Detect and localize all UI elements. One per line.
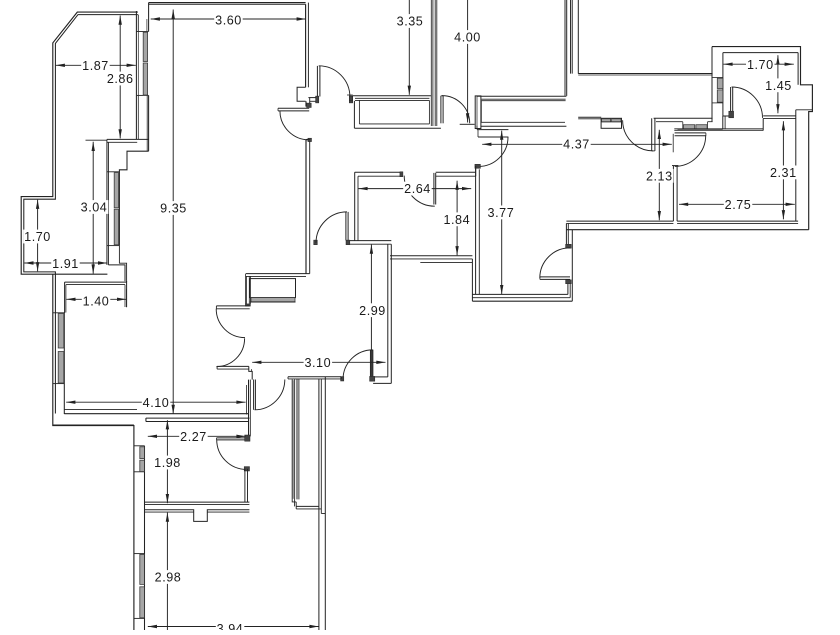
door A2 jamb top (307, 103, 312, 107)
door F leaf (dark) (370, 350, 373, 380)
door C leaf (345, 212, 347, 241)
dim 3.10 (252, 361, 385, 363)
window W-L1 upper (114, 173, 118, 208)
cap (287, 377, 289, 379)
door A2 leaf (278, 107, 309, 109)
door A jambs (316, 96, 319, 103)
svg-text:4.10: 4.10 (143, 396, 170, 410)
svg-text:3.60: 3.60 (215, 13, 242, 27)
top-right room inner right (797, 53, 799, 85)
kitchen wall pair with window (106, 139, 108, 265)
right-section top wall (390, 255, 472, 257)
3.77 corridor bottom wall (472, 293, 568, 295)
door B jamb block (349, 96, 352, 101)
outer right face (324, 377, 326, 630)
dim 3.94 (148, 626, 319, 628)
bay window 2 (477, 95, 567, 97)
door C arc (316, 212, 347, 243)
window W-L3 upper (140, 447, 145, 459)
lower-left exterior wall inner line (144, 446, 146, 630)
window W-TR lower (717, 90, 723, 102)
bay2 left jamb block (475, 96, 481, 129)
3.77 corridor west wall (475, 166, 477, 295)
shaft hatch fill (293, 380, 295, 499)
jog up to top-right room (722, 116, 724, 129)
svg-text:9.35: 9.35 (160, 202, 187, 216)
dim 1.70 right (723, 63, 793, 65)
2.64-room west wall (354, 172, 356, 240)
svg-text:4.00: 4.00 (454, 31, 481, 45)
cap (340, 377, 342, 379)
hall west wall pair (305, 139, 307, 273)
window W2 right (696, 125, 707, 129)
wall below window, west wall of R1 (135, 95, 137, 139)
svg-text:2.75: 2.75 (725, 198, 752, 212)
svg-text:2.86: 2.86 (107, 72, 134, 86)
outer (566, 229, 808, 231)
corner (145, 418, 147, 421)
top-right room left wall (711, 47, 713, 122)
dim 1.70 left (37, 200, 39, 272)
exterior wall outer boundary, left wing (21, 12, 138, 274)
cap (215, 306, 217, 309)
door D threshold (460, 123, 475, 125)
corridor bottom wall left part (578, 116, 601, 118)
svg-text:1.87: 1.87 (82, 59, 109, 73)
step to niche (108, 265, 125, 281)
door A leaf (316, 66, 318, 97)
arm west wall pair (296, 379, 298, 500)
svg-text:3.77: 3.77 (488, 206, 515, 220)
top-right room inner top (723, 52, 798, 54)
door F jamb (370, 376, 375, 381)
top-right room outer (712, 47, 812, 230)
notch wall (145, 510, 250, 522)
door G arc (217, 440, 247, 470)
hall east wall (387, 244, 389, 377)
wall under R1 horizontal pair (107, 138, 149, 140)
svg-text:3.10: 3.10 (304, 356, 331, 370)
dim 4.37 ext (672, 134, 674, 153)
door L arc (623, 120, 654, 151)
lower rooms: west wall corner at x146 (145, 418, 147, 421)
outer east face (571, 230, 573, 302)
door E3 leaf (730, 87, 732, 118)
window W-L4 lower (140, 587, 145, 618)
svg-text:2.27: 2.27 (180, 430, 207, 444)
svg-text:1.91: 1.91 (52, 257, 79, 271)
shaft bottom jogs (292, 499, 296, 502)
dim 2.27 (148, 435, 246, 437)
door J leaf (253, 380, 255, 410)
svg-text:3.35: 3.35 (397, 15, 424, 29)
dim 1.91 (24, 262, 107, 264)
jog wall V1 (249, 366, 252, 379)
stepped wall under R1 (119, 151, 148, 245)
door C jambs (314, 240, 318, 245)
door G jamb top (245, 435, 250, 441)
stub wall left of door A (308, 97, 317, 99)
3.04 top reference tick (86, 139, 107, 141)
top-right room bottom wall (763, 115, 796, 117)
door E3 jamb (729, 111, 734, 118)
door D leaf (balcony door) (440, 96, 442, 124)
door E arc (675, 135, 706, 166)
top-left window wall verticals (135, 11, 137, 95)
svg-text:1.98: 1.98 (154, 456, 181, 470)
door F2 leaf (540, 276, 570, 278)
cap (216, 366, 218, 369)
dim 3.60 (151, 18, 306, 20)
window left-wall W-L2 (58, 314, 64, 349)
sill (107, 245, 120, 247)
dim 9.35 (172, 10, 174, 415)
svg-text:1.40: 1.40 (83, 294, 110, 308)
svg-text:2.31: 2.31 (770, 166, 797, 180)
dim 1.40 ext line (126, 289, 128, 307)
door I jamb (475, 164, 481, 168)
cabinet hatch band (251, 298, 295, 302)
outer (472, 300, 572, 302)
exterior wall outer, lower-left (53, 274, 134, 630)
dim 1.87 (56, 64, 136, 66)
window W-TR upper (717, 78, 723, 88)
bay1 inner right (428, 100, 430, 124)
right-section bottom wall (566, 220, 673, 222)
corridor east wall / upper part (565, 223, 567, 248)
dim 2.75 (679, 203, 795, 205)
door L leaf (651, 118, 653, 151)
partition P3 / wall right of 4.00 room (564, 0, 566, 96)
door E leaf (675, 132, 706, 134)
big-room bottom wall lines (64, 409, 137, 411)
door F2 jamb top (566, 244, 572, 248)
2.75-room west wall (672, 166, 674, 221)
cusp door lower wall (217, 365, 249, 367)
door J arc (255, 380, 285, 410)
cap (672, 165, 678, 167)
arm east wall / room right wall (318, 379, 320, 630)
east wall of top rooms (577, 0, 579, 74)
door B2 jamb (400, 172, 403, 177)
svg-text:1.45: 1.45 (765, 79, 792, 93)
window W-L3 lower (140, 460, 145, 471)
window W-TL lower (143, 63, 147, 95)
dim 3.35 (408, 0, 410, 95)
dim 1.40 (66, 298, 126, 300)
cabinet room: top wall (246, 273, 310, 275)
corridor top wall (y73.6) (578, 73, 712, 75)
svg-text:1.84: 1.84 (443, 213, 470, 227)
2.64-room top wall right part (436, 171, 476, 173)
door A2 arc (280, 111, 309, 140)
svg-text:2.99: 2.99 (359, 304, 386, 318)
dim 2.31 (782, 121, 784, 219)
sill (712, 76, 723, 78)
window W-L3 sills (134, 445, 145, 447)
sill (712, 102, 723, 104)
pier on P1 (297, 87, 306, 101)
top wall main, y2.6-4.2 (149, 2, 306, 4)
door F jamb west (341, 377, 344, 381)
door I leaf (477, 129, 508, 131)
svg-text:1.70: 1.70 (747, 58, 774, 72)
dim 4.00 (467, 0, 469, 123)
dim 2.86 (119, 16, 121, 139)
svg-text:4.37: 4.37 (563, 137, 590, 151)
window W-L1 lower (114, 209, 118, 245)
dim 4.10 (66, 401, 245, 403)
cabinet box (250, 279, 296, 298)
outer west below (471, 259, 473, 301)
partition P2 (430, 0, 432, 126)
door F2 jamb bottom (566, 280, 572, 284)
dim 1.84 (456, 181, 458, 256)
door B2 arc (404, 176, 435, 207)
svg-text:2.13: 2.13 (646, 169, 673, 183)
wall W1 (288, 376, 341, 378)
dim 2.99 (370, 245, 372, 350)
1.98-room bottom wall (145, 501, 250, 503)
partition P1 top (305, 4, 307, 87)
door G jamb bottom (244, 467, 249, 471)
svg-text:3.04: 3.04 (81, 201, 108, 215)
corridor east wall lower (567, 284, 569, 295)
window W-TL sills (136, 31, 148, 33)
svg-text:1.70: 1.70 (24, 230, 51, 244)
window sill left lower (53, 383, 65, 385)
door F2 arc (540, 248, 570, 278)
window W-TL upper (143, 32, 147, 61)
door G leaf (217, 437, 247, 439)
window W-L4 upper (140, 554, 145, 584)
wall below door G (244, 469, 246, 502)
shaft west hatched wall a (291, 380, 293, 500)
dim 1.45 (777, 55, 779, 113)
door B2 leaf (433, 173, 435, 205)
wall pair east of window W / door L (621, 121, 623, 123)
cusp arc upper (216, 309, 245, 338)
svg-text:2.64: 2.64 (404, 182, 431, 196)
dim 4.37 (482, 143, 672, 145)
corridor bottom wall right part with window W2 (654, 117, 713, 119)
wall cap (245, 304, 250, 306)
niche walls (1.40) (65, 281, 127, 283)
window W-L4 sills (134, 553, 145, 555)
room V2 wall (right wall of 2.27/1.98 rooms) (248, 380, 250, 437)
cabinet room west wall (244, 274, 246, 304)
door A arc (319, 66, 350, 97)
svg-text:3.94: 3.94 (217, 622, 244, 630)
door A2 jamb bottom (308, 138, 312, 141)
dim 3.77 (501, 131, 503, 295)
wall inner face lower-left (63, 313, 65, 415)
2.64-room top wall left part (355, 171, 403, 173)
cusp arc lower (216, 338, 244, 366)
hall top wall (2.99 room) (350, 240, 391, 242)
dim 2.98 (166, 513, 168, 630)
dim 2.64 (358, 188, 471, 190)
door I arc (479, 137, 508, 166)
bay window 1 (353, 95, 431, 97)
sill top (107, 171, 120, 173)
hall SE corner (373, 376, 388, 378)
hall west wall pair upper stub (305, 101, 307, 106)
dim 2.13 (658, 130, 660, 220)
door E3 arc (732, 87, 763, 118)
dim 1.98 (166, 420, 168, 503)
svg-text:2.98: 2.98 (155, 571, 182, 585)
cusp door upper wall (216, 305, 249, 307)
stub wall above 2.31 room (674, 128, 763, 130)
door D arc (442, 96, 470, 124)
window W2 left (683, 125, 694, 129)
window W (601-621) (601, 118, 621, 128)
dim 3.04 (92, 142, 94, 274)
connector (762, 118, 764, 130)
dim 4.10 ext (245, 385, 247, 415)
door F arc (343, 350, 373, 380)
wall line continuation (306, 138, 310, 140)
exterior wall inner line, left wing (24, 15, 138, 414)
